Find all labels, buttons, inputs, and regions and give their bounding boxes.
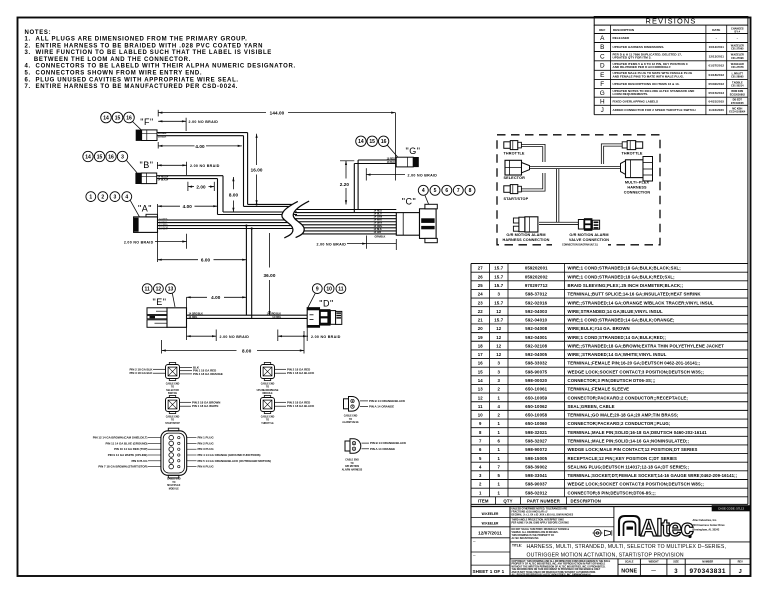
- svg-text:—: —: [651, 568, 656, 573]
- svg-text:1: 1: [497, 490, 500, 495]
- svg-text:PIN 3 18 GA BLK: PIN 3 18 GA BLK: [129, 371, 153, 375]
- svg-text:THE INFORMATION ON THIS DOCUME: THE INFORMATION ON THIS DOCUMENT IS PROV…: [512, 568, 601, 571]
- svg-text:2: 2: [479, 482, 482, 487]
- svg-text:O/R MOTION: O/R MOTION: [345, 466, 359, 468]
- svg-text:11: 11: [145, 287, 151, 293]
- svg-text:C01-28995: C01-28995: [731, 75, 744, 78]
- svg-text:TO: TO: [172, 482, 175, 484]
- svg-text:PIN 6 PLUG: PIN 6 PLUG: [198, 465, 215, 469]
- svg-text:5: 5: [434, 188, 437, 194]
- title text: [510, 542, 751, 559]
- svg-text:CABLE END: CABLE END: [166, 415, 180, 418]
- connector G (3-pin DT06-3S mirrored): [396, 157, 419, 167]
- svg-text:598-32021: 598-32021: [525, 430, 547, 435]
- connector B (3-pin DT06-3S): [135, 173, 156, 184]
- svg-text:DECIMAL .X ±.1 .XX ±.03 .XXX ±: DECIMAL .X ±.1 .XX ±.03 .XXX ±.010 ALL D…: [512, 514, 574, 517]
- svg-text:650-10060: 650-10060: [525, 421, 547, 426]
- cable end detail: selector switch: [129, 363, 222, 396]
- svg-text:RELEASED: RELEASED: [613, 36, 631, 40]
- svg-text:D: D: [600, 63, 605, 70]
- svg-text:1. ALL PLUGS ARE DIMENSIONED: 1. ALL PLUGS ARE DIMENSIONED FROM THE PR…: [25, 37, 248, 43]
- svg-text:04/21/2015: 04/21/2015: [709, 99, 725, 103]
- svg-text:36.00: 36.00: [264, 273, 276, 278]
- svg-text:PIN A 14 ORANGE: PIN A 14 ORANGE: [369, 405, 394, 409]
- svg-text:WIRE;BULK;#14 GA. BROWN: WIRE;BULK;#14 GA. BROWN: [568, 326, 630, 331]
- svg-text:PIN 1 18 GA BLACK: PIN 1 18 GA BLACK: [287, 371, 315, 375]
- svg-text:19: 19: [478, 335, 484, 340]
- svg-text:O/R MOTION ALARM: O/R MOTION ALARM: [506, 233, 545, 237]
- connector F (3-pin DT06-3S): [136, 130, 157, 141]
- svg-text:3: 3: [674, 569, 678, 575]
- svg-text:SEAL;GREEN, CABLE: SEAL;GREEN, CABLE: [568, 404, 615, 409]
- svg-text:5. CONNECTORS SHOWN FROM WIRE: 5. CONNECTORS SHOWN FROM WIRE ENTRY END.: [25, 71, 203, 77]
- dimension 2.00 NO BRAID at E: [187, 328, 250, 342]
- svg-text:PIN 8 PLUG: PIN 8 PLUG: [131, 459, 148, 463]
- svg-text:15: 15: [115, 115, 121, 121]
- svg-text:WIRE;1 COND;STRANDED;14 GA;BUL: WIRE;1 COND;STRANDED;14 GA;BULK;RED;;: [568, 335, 667, 340]
- svg-text:ECO-0108904: ECO-0108904: [729, 111, 746, 114]
- svg-text:PIN 11 14 GA BLUE (GROUND): PIN 11 14 GA BLUE (GROUND): [106, 441, 148, 445]
- svg-text:2.00 NO BRAID: 2.00 NO BRAID: [220, 335, 250, 339]
- svg-text:650-10059: 650-10059: [525, 395, 547, 400]
- svg-text:CABLE END: CABLE END: [261, 415, 275, 418]
- svg-text:05/15/2013: 05/15/2013: [709, 91, 725, 95]
- svg-text:16: 16: [126, 115, 132, 121]
- svg-text:UNLESS OTHERWISE NOTED, TOLERA: UNLESS OTHERWISE NOTED, TOLERANCES ARE: [512, 508, 568, 511]
- svg-text:WEDGE LOCK;MALE PIN CONTACT;12: WEDGE LOCK;MALE PIN CONTACT;12 POSITION;…: [568, 447, 698, 452]
- dimension 2.00 NO BRAID at B: [157, 162, 219, 175]
- svg-text:12: 12: [496, 326, 502, 331]
- svg-text:3: 3: [497, 292, 500, 297]
- svg-text:15: 15: [478, 369, 484, 374]
- svg-text:18: 18: [478, 343, 484, 348]
- svg-text:TO: TO: [266, 420, 269, 422]
- svg-text:4. CONNECTORS TO BE LABELD WI: 4. CONNECTORS TO BE LABELD WITH THEIR AL…: [25, 64, 296, 70]
- svg-text:20: 20: [478, 326, 484, 331]
- svg-text:TERMINAL;FEMALE SLEEVE: TERMINAL;FEMALE SLEEVE: [568, 387, 630, 392]
- svg-text:4: 4: [422, 188, 425, 194]
- svg-text:UPLINE/DOWNLINE: UPLINE/DOWNLINE: [257, 390, 279, 392]
- connector C (8-pin DT06-8S): [396, 204, 437, 242]
- schematic connector: selector: [504, 160, 530, 180]
- schematic connector: throttle (top right): [622, 141, 643, 156]
- svg-text:592-04003: 592-04003: [525, 309, 547, 314]
- svg-text:PIN 2 PLUG: PIN 2 PLUG: [198, 441, 215, 445]
- svg-text:15.7: 15.7: [494, 266, 503, 271]
- svg-text:THIS DRAWING IS THE PROPERTY O: THIS DRAWING IS THE PROPERTY OF: [512, 534, 555, 537]
- svg-text:8.00: 8.00: [242, 348, 252, 353]
- balloons 4 5 6 7 8 for connector C: [418, 185, 475, 195]
- svg-text:01/27/2012: 01/27/2012: [709, 64, 725, 68]
- svg-text:ALTEC INDUSTRIES INC.: ALTEC INDUSTRIES INC.: [512, 537, 540, 540]
- svg-text:14 ORG: 14 ORG: [189, 316, 198, 319]
- svg-text:14: 14: [103, 115, 109, 121]
- svg-text:3: 3: [114, 195, 117, 201]
- svg-text:WEDGE LOCK;SOCKET CONTACT;3 PO: WEDGE LOCK;SOCKET CONTACT;3 POSITION;DEU…: [568, 369, 705, 374]
- svg-text:PIN 12 14 GA BROWN (CAM SHIELD: PIN 12 14 GA BROWN (CAM SHIELD/LT): [93, 436, 148, 440]
- svg-text:W.KEELER: W.KEELER: [482, 522, 499, 526]
- svg-text:26: 26: [478, 274, 484, 279]
- schematic connector: start/stop: [504, 185, 529, 201]
- svg-text:210 Inverness Center Drive: 210 Inverness Center Drive: [693, 524, 726, 527]
- schematic connector: O/R motion alarm harness: [503, 217, 550, 242]
- branch wires down to D/E: [245, 226, 247, 316]
- svg-text:PIN 10 14 GA RED (TOP): PIN 10 14 GA RED (TOP): [114, 447, 147, 451]
- svg-text:PIN 4 18 GA ORANGE: PIN 4 18 GA ORANGE: [193, 372, 223, 376]
- svg-text:"D": "D": [319, 299, 333, 309]
- svg-text:18 BLK: 18 BLK: [387, 161, 396, 164]
- svg-text:AND IS NOT TO BE USED FOR MANU: AND IS NOT TO BE USED FOR MANUFACTURE WI…: [512, 571, 597, 574]
- svg-text:REV: REV: [738, 561, 743, 564]
- svg-text:CABLE END: CABLE END: [261, 382, 275, 385]
- svg-text:Altec Industries, Inc.: Altec Industries, Inc.: [693, 519, 718, 522]
- svg-text:DESCRIPTION: DESCRIPTION: [571, 498, 601, 503]
- svg-text:A: A: [600, 35, 605, 42]
- svg-text:H: H: [600, 98, 605, 105]
- svg-text:HARNESS CONNECTION: HARNESS CONNECTION: [503, 238, 550, 242]
- svg-text:2: 2: [101, 195, 104, 201]
- svg-text:598-39002: 598-39002: [525, 464, 547, 469]
- svg-text:9: 9: [479, 421, 482, 426]
- svg-text:VIEWED. ALL DRAWINGS ARE IN IN: VIEWED. ALL DRAWINGS ARE IN INCHES.: [512, 531, 559, 534]
- svg-text:3: 3: [497, 361, 500, 366]
- svg-text:C01-30214: C01-30214: [731, 85, 744, 88]
- svg-text:CABLE END: CABLE END: [167, 478, 181, 481]
- dimension 2.00 NO BRAID at C: [317, 236, 397, 251]
- dimension 2.00 NO BRAID at G: [366, 168, 437, 180]
- svg-text:PIN 1 18 GA WHITE: PIN 1 18 GA WHITE: [192, 404, 218, 408]
- svg-text:TO: TO: [171, 387, 174, 389]
- svg-text:REVISIONS: REVISIONS: [646, 16, 697, 25]
- right side vertical line below revisions: [747, 115, 749, 264]
- svg-text:2.00 NO BRAID: 2.00 NO BRAID: [124, 241, 154, 245]
- svg-text:8: 8: [479, 430, 482, 435]
- svg-text:15.7: 15.7: [494, 318, 503, 323]
- svg-text:PIN 9 14 GA WHITE (UPLINE): PIN 9 14 GA WHITE (UPLINE): [108, 453, 148, 457]
- svg-text:CONNECTION DIAGRAM (N.T.S.): CONNECTION DIAGRAM (N.T.S.): [562, 243, 598, 246]
- svg-text:7. ENTIRE HARNESS TO BE MANUF: 7. ENTIRE HARNESS TO BE MANUFACTURED PER…: [25, 84, 239, 90]
- leader line to connector A: [130, 200, 139, 217]
- svg-text:8.00: 8.00: [229, 192, 239, 197]
- dimension 8.00 bottom: [162, 331, 304, 354]
- svg-text:592-04008: 592-04008: [525, 326, 547, 331]
- svg-text:27: 27: [478, 266, 484, 271]
- svg-text:"E": "E": [153, 297, 167, 307]
- svg-text:16.00: 16.00: [251, 168, 263, 173]
- svg-text:DO NOT SCALE THIS PRINT. DRAWN: DO NOT SCALE THIS PRINT. DRAWN ALT SCREW…: [512, 528, 570, 531]
- svg-text:598-15005: 598-15005: [525, 456, 547, 461]
- dimension 6.00: [158, 258, 247, 263]
- svg-text:11: 11: [478, 404, 483, 409]
- svg-text:12: 12: [496, 335, 502, 340]
- svg-text:6: 6: [479, 447, 482, 452]
- svg-text:4: 4: [497, 404, 500, 409]
- svg-text:WIRE;STRANDED;14 GA;BLUE;VINYL: WIRE;STRANDED;14 GA;BLUE;VINYL INSUL: [568, 309, 663, 314]
- svg-text:B: B: [600, 44, 604, 51]
- svg-text:CONNECTOR;PACKARD;2 CONDUCTOR;: CONNECTOR;PACKARD;2 CONDUCTOR;;RECEPTACL…: [568, 395, 689, 400]
- svg-text:10: 10: [478, 413, 484, 418]
- svg-text:SHEET 1 OF 1: SHEET 1 OF 1: [473, 569, 505, 574]
- leader line to connector G: [387, 145, 398, 157]
- svg-text:4: 4: [125, 195, 128, 201]
- svg-text:TERMINAL;MALE PIN;SOLID;16-18: TERMINAL;MALE PIN;SOLID;16-18 GA;DEUTSCH…: [568, 430, 708, 435]
- svg-text:DESCRIPTION: DESCRIPTION: [613, 28, 634, 32]
- svg-text:CONNECTOR;3 PIN;DEUTSCH DT06-3: CONNECTOR;3 PIN;DEUTSCH DT06-3S;;;: [568, 378, 657, 383]
- svg-text:22: 22: [478, 309, 484, 314]
- svg-text:6. PLUG UNUSED CAVITIES WITH: 6. PLUG UNUSED CAVITIES WITH APPROPRIATE…: [25, 77, 239, 83]
- svg-text:ADDED CONNECTOR FOR 2 SPEED TH: ADDED CONNECTOR FOR 2 SPEED THROTTLE SWI…: [613, 108, 696, 112]
- cable end detail: 12-pin multiplex connector: [93, 428, 271, 490]
- svg-text:15: 15: [97, 154, 103, 160]
- svg-text:GRN/BLK: GRN/BLK: [375, 236, 386, 239]
- dimension 2.00 NO BRAID at A: [124, 234, 187, 249]
- dimension 2.00 NO BRAID at F: [158, 118, 218, 131]
- svg-text:DATE: DATE: [712, 28, 720, 32]
- svg-text:12: 12: [496, 343, 502, 348]
- svg-text:MULTIPLEX: MULTIPLEX: [167, 485, 180, 487]
- svg-text:FRACTIONS ±1/16 ANGULAR ±1: FRACTIONS ±1/16 ANGULAR ±1°: [512, 510, 548, 513]
- svg-text:ECO2026862: ECO2026862: [730, 93, 746, 96]
- svg-text:"B": "B": [140, 160, 154, 170]
- svg-text:144.00: 144.00: [270, 111, 285, 116]
- svg-text:14 ORG: 14 ORG: [272, 316, 281, 319]
- svg-text:F: F: [600, 81, 604, 88]
- svg-text:WIRE;;STRANDED;18 GA;BROWN;EXT: WIRE;;STRANDED;18 GA;BROWN;EXTRA THIN PO…: [568, 343, 725, 348]
- svg-text:04/18/2012: 04/18/2012: [709, 73, 725, 77]
- svg-text:6.00: 6.00: [201, 258, 211, 263]
- svg-text:START/STOP: START/STOP: [504, 197, 529, 201]
- svg-text:WIRE;;STRANDED;14 GA;WHITE;VIN: WIRE;;STRANDED;14 GA;WHITE;VINYL INSUL: [568, 352, 667, 357]
- svg-text:25: 25: [478, 283, 484, 288]
- dimension 2.00 at B: [188, 182, 214, 191]
- svg-text:TO: TO: [171, 420, 174, 422]
- svg-text:15.7: 15.7: [494, 274, 503, 279]
- svg-text:12: 12: [496, 352, 502, 357]
- cable end detail: upline: [257, 363, 316, 396]
- svg-text:598-90072: 598-90072: [525, 447, 547, 452]
- svg-text:3: 3: [479, 473, 482, 478]
- svg-text:BETWEEN THE LOOM AND THE CONNE: BETWEEN THE LOOM AND THE CONNECTOR.: [25, 57, 192, 63]
- Altec logo: [619, 515, 694, 542]
- svg-text:598-02012: 598-02012: [525, 490, 547, 495]
- svg-text:12/07/2011: 12/07/2011: [478, 531, 502, 536]
- svg-text:START/STOP: START/STOP: [165, 422, 180, 425]
- svg-text:24: 24: [478, 292, 484, 297]
- dimension 2.00 NO BRAID at D: [278, 328, 341, 342]
- connector A (12-pin receptacle): [134, 214, 158, 232]
- third angle projection symbol: [594, 529, 601, 536]
- svg-text:1: 1: [497, 395, 500, 400]
- svg-text:650-10058: 650-10058: [525, 413, 547, 418]
- balloons 9 10 11 for connector D: [312, 284, 345, 294]
- title block small print: [510, 507, 614, 542]
- svg-text:J: J: [601, 107, 604, 114]
- dimension 4.00 at E: [187, 295, 247, 307]
- svg-text:MODULE: MODULE: [262, 393, 273, 395]
- svg-text:592-04001: 592-04001: [525, 335, 547, 340]
- svg-text:CABLE END: CABLE END: [345, 459, 359, 462]
- dimension 2.20 vertical at G branch: [340, 161, 355, 205]
- svg-text:9: 9: [316, 287, 319, 293]
- cable end detail: start/stop: [165, 396, 220, 425]
- svg-text:1: 1: [479, 490, 482, 495]
- svg-text:SWITCH: SWITCH: [168, 393, 178, 395]
- svg-text:PIN 5 14 GA ORANGE/BLACK (OUTR: PIN 5 14 GA ORANGE/BLACK (OUTRIGGER MOTI…: [198, 459, 271, 463]
- svg-text:SIZE: SIZE: [673, 561, 679, 564]
- svg-text:CONNECTION: CONNECTION: [624, 191, 651, 195]
- svg-text:TERMINAL;SOCKET;DT;FEMALE SOCK: TERMINAL;SOCKET;DT;FEMALE SOCKET;14-16 G…: [568, 473, 738, 478]
- svg-text:598-90037: 598-90037: [525, 482, 547, 487]
- svg-text:3: 3: [497, 378, 500, 383]
- svg-text:1: 1: [89, 195, 92, 201]
- svg-text:FIXED OVERLAPPING LABELS: FIXED OVERLAPPING LABELS: [613, 99, 659, 103]
- schematic connector: O/R motion alarm valve: [569, 218, 609, 242]
- svg-text:WIRE;;STRANDED;14 GA;ORANGE W/: WIRE;;STRANDED;14 GA;ORANGE W/BLACK TRAC…: [568, 300, 714, 305]
- svg-text:THROTTLE: THROTTLE: [261, 423, 274, 425]
- svg-text:E: E: [600, 72, 604, 79]
- balloons 11 12 13 for connector E: [142, 284, 175, 294]
- svg-text:16: 16: [381, 139, 387, 145]
- svg-text:5: 5: [479, 456, 482, 461]
- svg-text:TO: TO: [349, 419, 352, 421]
- svg-text:7: 7: [497, 464, 500, 469]
- svg-text:"F": "F": [140, 117, 153, 127]
- svg-text:3: 3: [121, 154, 124, 160]
- svg-text:WIRE;1 COND;STRANDED;18 GA;BUL: WIRE;1 COND;STRANDED;18 GA;BULK;RED;SXL;: [568, 274, 676, 279]
- revisions table: [594, 16, 748, 114]
- svg-text:598-33032: 598-33032: [525, 361, 547, 366]
- svg-text:7: 7: [479, 439, 482, 444]
- svg-text:Birmingham, AL 35242: Birmingham, AL 35242: [693, 529, 720, 532]
- svg-text:J: J: [739, 569, 742, 575]
- svg-text:4: 4: [479, 464, 482, 469]
- svg-text:ALL RIGHTS RESERVED BY ALTEC I: ALL RIGHTS RESERVED BY ALTEC INDUSTRIES,…: [512, 574, 593, 577]
- svg-text:12/13/2011: 12/13/2011: [709, 54, 725, 58]
- svg-text:598-00020: 598-00020: [525, 378, 547, 383]
- dimension 4.00 at F branch: [158, 142, 242, 149]
- wire pair from B: [157, 175, 223, 177]
- svg-text:CONNECTOR;8 PIN;DEUTSCH;DT06-8: CONNECTOR;8 PIN;DEUTSCH;DT06-8S;;;: [568, 490, 657, 495]
- svg-text:"G": "G": [406, 146, 421, 156]
- svg-text:592-02108: 592-02108: [525, 343, 547, 348]
- svg-text:14 O/B: 14 O/B: [374, 231, 382, 234]
- svg-text:MODULE: MODULE: [169, 488, 180, 490]
- svg-text:TERMINAL;BUTT SPLICE;14-16 GA;: TERMINAL;BUTT SPLICE;14-16 GA;INSULATED;…: [568, 292, 702, 297]
- harness break squiggle: [282, 201, 309, 238]
- cable end detail: alarm valve: [342, 397, 406, 425]
- svg-text:592-02016: 592-02016: [525, 300, 547, 305]
- svg-text:BRAID SLEEVING;PLEX;.25 INCH D: BRAID SLEEVING;PLEX;.25 INCH DIAMETER;BL…: [568, 283, 684, 288]
- svg-text:650-10061: 650-10061: [525, 387, 547, 392]
- svg-text:WIRE;1 COND;STRANDED;14 GA;BUL: WIRE;1 COND;STRANDED;14 GA;BULK;ORANGE;: [568, 318, 675, 323]
- balloons 14 15 16 3 for connector B: [83, 151, 128, 161]
- svg-text:SELECTOR: SELECTOR: [166, 390, 179, 392]
- cable end detail: O/R alarm harness: [342, 439, 407, 472]
- svg-text:CABLE END: CABLE END: [166, 382, 180, 385]
- svg-text:21: 21: [478, 318, 484, 323]
- svg-text:C01-27998: C01-27998: [731, 57, 744, 60]
- svg-text:PART NUMBER: PART NUMBER: [527, 498, 561, 503]
- svg-text:1: 1: [497, 447, 500, 452]
- svg-text:CABLE END: CABLE END: [344, 415, 358, 418]
- svg-text:HARNESS: HARNESS: [627, 186, 647, 190]
- svg-text:2. ENTIRE HARNESS TO BE BRAID: 2. ENTIRE HARNESS TO BE BRAIDED WITH .02…: [25, 43, 264, 49]
- svg-text:HARNESS, MULTI, STRANDED, MULT: HARNESS, MULTI, STRANDED, MULTI, SELECTO…: [527, 544, 727, 550]
- dimension 36.00 vertical: [264, 233, 276, 315]
- bundle right of break to connector C: [295, 210, 396, 234]
- svg-text:THROTTLE: THROTTLE: [622, 151, 643, 155]
- svg-text:"C": "C": [402, 197, 416, 207]
- svg-text:10/12/2011: 10/12/2011: [709, 45, 725, 49]
- svg-text:23: 23: [478, 300, 484, 305]
- svg-text:598-33041: 598-33041: [525, 473, 547, 478]
- svg-text:1: 1: [497, 456, 500, 461]
- svg-text:14: 14: [85, 154, 91, 160]
- svg-text:1: 1: [497, 430, 500, 435]
- svg-text:4.00: 4.00: [211, 295, 221, 300]
- svg-text:TERMINAL;GO MALE;20-18 GA;20 A: TERMINAL;GO MALE;20-18 GA;20 AMP;TIN BRA…: [568, 413, 679, 418]
- svg-text:C: C: [600, 53, 605, 60]
- leader line to connector B: [127, 161, 138, 173]
- svg-text:UPDATED QTY FOR ITM 3.: UPDATED QTY FOR ITM 3.: [613, 56, 652, 60]
- svg-text:PER ASME Y14.5M. DIMS APPLY BE: PER ASME Y14.5M. DIMS APPLY BEFORE COATI…: [512, 521, 570, 524]
- svg-text:ALARM VALVE: ALARM VALVE: [342, 421, 359, 424]
- wire bundle from A: [158, 220, 298, 229]
- svg-text:PIN B 14 ORANGE/BLACK: PIN B 14 ORANGE/BLACK: [369, 399, 406, 403]
- connection diagram dashed box: [497, 135, 660, 245]
- connector E (Packard receptacle): [147, 308, 187, 328]
- svg-text:10: 10: [326, 287, 332, 293]
- svg-text:REF: REF: [599, 28, 605, 32]
- svg-text:2.00 NO BRAID: 2.00 NO BRAID: [190, 164, 220, 168]
- svg-text:15.7: 15.7: [494, 300, 503, 305]
- svg-text:LOOM REQUIREMENTS.: LOOM REQUIREMENTS.: [613, 92, 649, 96]
- svg-text:2.00 NO BRAID: 2.00 NO BRAID: [189, 120, 219, 124]
- svg-text:4.00: 4.00: [195, 144, 205, 149]
- svg-text:1: 1: [497, 421, 500, 426]
- leader line to connector D: [308, 293, 316, 308]
- svg-text:14: 14: [478, 378, 484, 383]
- svg-text:PIN A 14 ORANGE: PIN A 14 ORANGE: [370, 447, 395, 451]
- dimension 144.00 overall length: [158, 110, 395, 181]
- svg-text:CONNECTOR;PACKARD;2 CONDUCTOR;: CONNECTOR;PACKARD;2 CONDUCTOR;;PLUG;: [568, 421, 671, 426]
- svg-text:Altec: Altec: [640, 515, 694, 542]
- balloons 14 15 16 for connector G: [356, 136, 389, 146]
- svg-text:VALVE CONNECTION: VALVE CONNECTION: [569, 238, 609, 242]
- svg-text:15: 15: [369, 139, 375, 145]
- svg-text:12: 12: [156, 287, 162, 293]
- svg-text:UPDATED DESCRIPTIONS ON ITEMS: UPDATED DESCRIPTIONS ON ITEMS 16 & 13.: [613, 82, 680, 86]
- dimension 4.00 at A: [158, 204, 218, 262]
- svg-text:CAGE CODE: 57L13: CAGE CODE: 57L13: [718, 507, 745, 511]
- bill of materials table: [471, 264, 748, 505]
- svg-text:15.7: 15.7: [494, 283, 503, 288]
- svg-text:PIN B 14 ORANGE/BLACK: PIN B 14 ORANGE/BLACK: [370, 441, 407, 445]
- svg-text:16: 16: [478, 361, 484, 366]
- svg-text:2: 2: [497, 387, 500, 392]
- bundle upper wires (F/B continuation): [218, 204, 298, 214]
- svg-text:2.00 NO BRAID: 2.00 NO BRAID: [408, 173, 438, 177]
- svg-text:598-37012: 598-37012: [525, 292, 547, 297]
- svg-text:PIN 1 PLUG: PIN 1 PLUG: [198, 436, 215, 440]
- svg-text:TO: TO: [350, 463, 353, 465]
- svg-text:PROPERTY OF ALTEC INDUSTRIES,: PROPERTY OF ALTEC INDUSTRIES, INC. ANY R…: [512, 563, 606, 566]
- svg-text:C01-27978: C01-27978: [731, 66, 744, 69]
- svg-text:059202002: 059202002: [525, 274, 548, 279]
- svg-text:598-32027: 598-32027: [525, 439, 547, 444]
- svg-text:WEDGE LOCK;SOCKET CONTACT;8 PO: WEDGE LOCK;SOCKET CONTACT;8 POSITION;DEU…: [568, 482, 705, 487]
- svg-text:8: 8: [469, 188, 472, 194]
